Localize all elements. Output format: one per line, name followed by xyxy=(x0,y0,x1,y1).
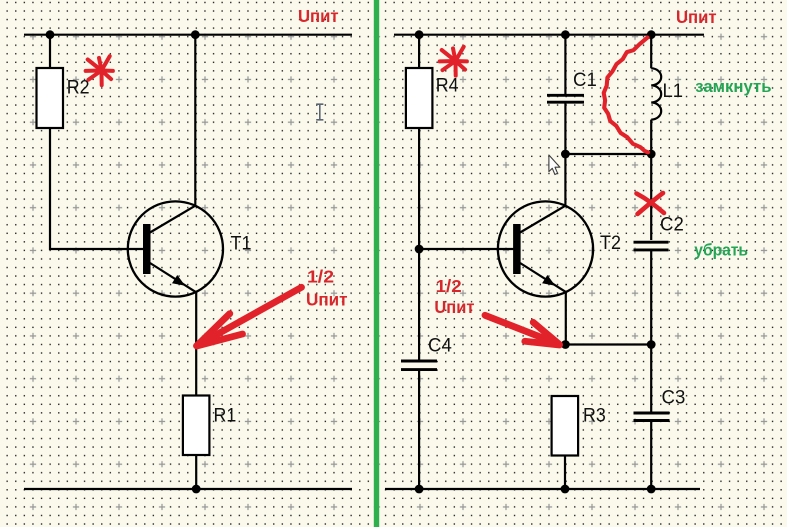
transistor T2 xyxy=(498,201,593,296)
capacitor C2 xyxy=(634,242,669,250)
svg-text:замкнуть: замкнуть xyxy=(695,77,771,96)
wire: C2 down to lower mid node xyxy=(650,250,652,345)
wire: right bottom rail xyxy=(385,488,700,490)
svg-text:Uпит: Uпит xyxy=(306,290,348,310)
wire: base wire to T2 xyxy=(419,248,513,250)
wire: right top supply rail xyxy=(394,34,704,36)
wire: C4 to bottom rail xyxy=(418,370,420,489)
svg-text:R3: R3 xyxy=(583,406,606,427)
node: junction dot mid / collector xyxy=(561,150,570,159)
svg-text:R1: R1 xyxy=(214,406,237,427)
annotation: red bypass squiggle (замкнуть) xyxy=(604,38,648,153)
svg-text:убрать: убрать xyxy=(694,241,748,260)
svg-text:C2: C2 xyxy=(660,214,684,235)
wire: L1 node down to C2 xyxy=(650,154,652,240)
node: junction dot top rail / C1 xyxy=(561,30,570,39)
wire: R1 to bottom rail xyxy=(195,455,197,489)
svg-text:T2: T2 xyxy=(600,233,621,254)
node: junction dot bottom / C4 xyxy=(415,485,424,494)
annotation: red arrow to 1/2 Uпит point (left) xyxy=(197,287,302,346)
wire: C3 top stub xyxy=(650,345,652,413)
inductor L1 xyxy=(651,68,661,119)
wire: C3 to bottom rail xyxy=(650,421,652,490)
text cursor I-beam xyxy=(316,104,323,120)
annotation: red asterisk near R2 xyxy=(86,56,113,85)
svg-text:L1: L1 xyxy=(663,81,684,102)
svg-text:T1: T1 xyxy=(231,233,252,254)
svg-text:1/2: 1/2 xyxy=(307,267,334,287)
node: junction dot top rail / T1 collector xyxy=(191,30,200,39)
annotation: red arrow to 1/2 Uпит point (right) xyxy=(485,315,560,345)
svg-text:Uпит: Uпит xyxy=(676,7,717,27)
wire: R2 to T1 base (down then right) xyxy=(50,128,144,249)
capacitor C3 xyxy=(634,413,670,421)
svg-text:R2: R2 xyxy=(67,78,90,99)
node: junction dot bottom rail / R1 xyxy=(192,485,201,494)
mouse cursor arrow xyxy=(549,155,560,175)
wire: T2 collector to mid node xyxy=(564,154,566,207)
svg-text:Uпит: Uпит xyxy=(298,6,339,26)
annotation: red X over C2 wire (убрать) xyxy=(637,193,665,214)
node: junction dot top rail / R4 xyxy=(415,30,424,39)
wire: top rail to R4 xyxy=(418,35,420,68)
node: junction dot C2/C3 xyxy=(647,340,656,349)
resistor R1 xyxy=(183,396,210,456)
wire: C1 top stub xyxy=(564,35,566,94)
node: junction dot R4/T2 base xyxy=(415,245,424,254)
node: junction dot emitter/R3 xyxy=(561,340,570,349)
node: junction dot top rail / L1 xyxy=(647,30,656,39)
annotation: red asterisk near R4 xyxy=(440,47,467,76)
resistor R4 xyxy=(406,68,433,128)
svg-text:Uпит: Uпит xyxy=(434,297,474,317)
wire: C1 bottom stub to mid node xyxy=(564,102,566,154)
wire: T2 emitter down to node xyxy=(565,292,567,345)
node: junction dot mid / L1 xyxy=(647,150,656,159)
resistor R2 xyxy=(37,68,64,128)
wire: lower mid horizontal emitter-C2 xyxy=(565,343,651,345)
divider: green vertical separator line xyxy=(374,0,379,527)
svg-text:C3: C3 xyxy=(662,387,686,408)
node: junction dot top rail / R2 xyxy=(46,30,55,39)
transistor T1 xyxy=(128,201,223,296)
wire: L1 bottom stub xyxy=(650,120,652,154)
wire: L1 top stub xyxy=(650,35,652,69)
wire: left top supply rail xyxy=(24,34,352,36)
wire: top rail to R2 xyxy=(49,35,51,68)
capacitor C4 xyxy=(401,361,437,370)
svg-text:R4: R4 xyxy=(436,75,459,96)
wire: T1 emitter down to R1 xyxy=(195,292,197,396)
wire: mid horizontal C1-L1 xyxy=(565,153,651,155)
svg-text:C1: C1 xyxy=(573,70,597,91)
node: junction dot bottom / R3 xyxy=(561,485,570,494)
wire: R4 down to C4 xyxy=(418,128,420,360)
svg-text:C4: C4 xyxy=(428,335,452,356)
resistor R3 xyxy=(552,396,579,456)
wire: T1 collector to top rail xyxy=(194,35,196,207)
node: junction dot bottom / C3 xyxy=(647,485,656,494)
wire: R3 to bottom rail xyxy=(564,456,566,490)
wire: left bottom rail xyxy=(24,488,352,490)
svg-text:1/2: 1/2 xyxy=(436,276,462,296)
capacitor C1 xyxy=(547,95,584,102)
